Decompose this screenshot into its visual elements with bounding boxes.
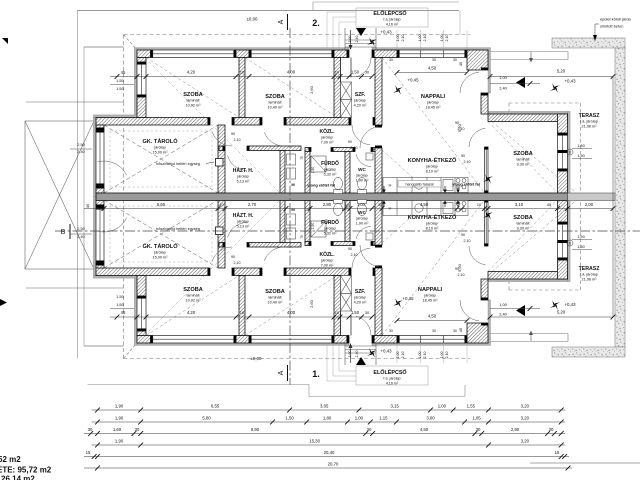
svg-text:10,40 m²: 10,40 m² <box>268 300 284 304</box>
svg-text:SZOBA: SZOBA <box>265 94 285 100</box>
door arc KONYHA to SZOBA <box>469 128 485 147</box>
insulation strip <box>93 197 96 276</box>
insulation strip <box>488 50 491 93</box>
svg-text:4,20 m²: 4,20 m² <box>354 300 368 304</box>
svg-text:KÖZL.: KÖZL. <box>320 128 336 135</box>
wall <box>96 125 104 130</box>
svg-text:A: A <box>278 19 285 24</box>
svg-text:±0,00: ±0,00 <box>251 356 263 361</box>
svg-text:90: 90 <box>348 247 352 251</box>
svg-text:1,80: 1,80 <box>323 416 332 421</box>
svg-text:SZOBA: SZOBA <box>265 289 285 295</box>
roof overhang dashed left vertical mid <box>123 102 125 288</box>
svg-text:5,13 m²: 5,13 m² <box>237 179 251 183</box>
roof eave line lower-left <box>26 287 124 289</box>
kitchen counter top unit <box>383 178 468 193</box>
window <box>485 147 489 193</box>
garage cross diagonal 2 <box>104 125 218 193</box>
svg-text:járólap: járólap <box>153 146 165 150</box>
svg-text:2,10: 2,10 <box>458 273 465 277</box>
svg-text:2,00: 2,00 <box>585 202 594 207</box>
sheet step line bottom <box>88 384 310 386</box>
svg-text:KONYHA-ÉTKEZŐ: KONYHA-ÉTKEZŐ <box>408 213 457 221</box>
garage cross diagonal 1 <box>104 125 218 193</box>
svg-text:B: B <box>61 229 66 236</box>
room diagonal NAPPALI/KONYHA <box>382 58 485 194</box>
dimension chain row 1 <box>92 409 566 411</box>
bathroom fixtures top unit <box>287 153 374 194</box>
svg-text:10: 10 <box>335 310 340 315</box>
entrance arrow top <box>350 30 352 49</box>
wall <box>284 268 351 276</box>
wall <box>96 268 210 276</box>
dim terrace 5,20 top <box>490 76 613 78</box>
wall <box>137 58 146 63</box>
svg-text:járólap: járólap <box>355 174 367 178</box>
svg-text:4,00: 4,00 <box>287 70 296 75</box>
svg-text:5,20: 5,20 <box>557 310 566 315</box>
terrace divider wall <box>568 193 616 201</box>
wall <box>334 58 341 118</box>
svg-text:2,80: 2,80 <box>323 202 332 207</box>
wall <box>334 50 349 58</box>
svg-text:30: 30 <box>389 58 393 62</box>
svg-text:1,55: 1,55 <box>467 404 476 409</box>
wall <box>216 159 224 167</box>
insulation strip <box>488 300 491 343</box>
svg-text:1,00: 1,00 <box>396 35 400 42</box>
svg-text:+0,45: +0,45 <box>402 296 414 301</box>
terrace diagonal dashed <box>492 122 581 197</box>
svg-text:30: 30 <box>476 427 481 432</box>
svg-text:simított beton: simított beton <box>600 24 623 29</box>
svg-text:laminált: laminált <box>268 296 282 300</box>
dim row middle <box>84 208 613 210</box>
svg-text:3,20: 3,20 <box>521 439 530 444</box>
svg-text:2,10: 2,10 <box>458 127 465 131</box>
svg-text:ELŐLÉPCSŐ: ELŐLÉPCSŐ <box>373 368 406 376</box>
sidewalk stipple band top <box>552 38 625 48</box>
svg-text:5,80: 5,80 <box>202 416 211 421</box>
wall <box>305 242 311 246</box>
wall <box>247 146 301 151</box>
svg-text:+0,43: +0,43 <box>564 79 576 84</box>
svg-text:+0,43: +0,43 <box>564 302 576 307</box>
svg-text:járólap: járólap <box>320 259 332 263</box>
dimension chain row 4 <box>92 444 566 446</box>
eave line above terrace <box>490 51 568 53</box>
svg-text:90: 90 <box>231 132 235 136</box>
svg-text:9,90: 9,90 <box>251 427 260 432</box>
svg-text:1,50: 1,50 <box>116 302 125 307</box>
svg-text:30: 30 <box>378 203 382 207</box>
svg-text:4,50: 4,50 <box>428 314 437 319</box>
insulation strip <box>93 276 137 279</box>
svg-text:1,50: 1,50 <box>577 154 584 158</box>
svg-text:laminált: laminált <box>268 101 282 105</box>
svg-text:SZOBA: SZOBA <box>513 151 533 157</box>
wall <box>558 114 568 133</box>
wall <box>372 336 397 344</box>
svg-text:1,50: 1,50 <box>351 310 360 315</box>
svg-text:2.: 2. <box>312 18 320 28</box>
svg-text:45: 45 <box>85 203 90 208</box>
wall <box>239 58 245 118</box>
svg-text:járólap: járólap <box>423 294 435 298</box>
wall <box>331 242 355 246</box>
svg-text:1,00: 1,00 <box>438 404 447 409</box>
windmill symbols <box>393 85 404 96</box>
svg-text:járólap: járólap <box>153 251 165 255</box>
sidewalk inner edge bottom-left <box>84 345 124 347</box>
window <box>96 207 104 263</box>
dimension chain row 6 <box>84 467 572 469</box>
svg-text:±0,00: ±0,00 <box>247 17 259 22</box>
roof hip diagonal 1 <box>25 121 94 269</box>
terrace dashed outline <box>509 102 581 104</box>
svg-text:2,60: 2,60 <box>309 85 314 94</box>
svg-text:20,70: 20,70 <box>328 462 339 467</box>
svg-text:2,10: 2,10 <box>351 146 358 150</box>
svg-text:8,10 m²: 8,10 m² <box>426 226 440 230</box>
svg-text:laminált: laminált <box>186 99 200 103</box>
svg-text:hőszivattyú beltéri egység: hőszivattyú beltéri egység <box>156 162 200 166</box>
svg-text:ETE: 95,72 m2: ETE: 95,72 m2 <box>0 466 52 475</box>
svg-text:1,00: 1,00 <box>440 352 444 359</box>
svg-text:45: 45 <box>121 310 126 315</box>
svg-text:5,20: 5,20 <box>557 69 566 74</box>
door arc SZOBA2 <box>264 132 284 146</box>
dim NAPPALI window <box>397 72 467 74</box>
svg-text:járólap: járólap <box>236 175 248 179</box>
wall <box>137 331 146 336</box>
wall <box>280 200 285 243</box>
window <box>397 336 467 344</box>
svg-text:18,45 m²: 18,45 m² <box>423 298 439 302</box>
svg-text:3,20: 3,20 <box>521 416 530 421</box>
svg-text:7,00 m²: 7,00 m² <box>321 263 335 267</box>
svg-text:+0,43: +0,43 <box>380 349 392 354</box>
svg-text:4,16 m²: 4,16 m² <box>386 382 399 386</box>
svg-text:4,50: 4,50 <box>428 66 437 71</box>
wall <box>334 336 349 344</box>
wall <box>96 186 104 193</box>
svg-text:10: 10 <box>240 310 245 315</box>
svg-text:3,00: 3,00 <box>426 416 435 421</box>
svg-text:1,00: 1,00 <box>355 416 364 421</box>
wall <box>345 200 350 242</box>
wall <box>219 243 225 248</box>
svg-text:hőszivattyú beltéri egység: hőszivattyú beltéri egység <box>156 227 200 231</box>
svg-text:3,05: 3,05 <box>320 404 329 409</box>
svg-text:20,40: 20,40 <box>324 450 335 455</box>
svg-text:2,40: 2,40 <box>355 36 359 43</box>
svg-text:5,13 m²: 5,13 m² <box>237 224 251 228</box>
svg-text:8: 8 <box>569 242 571 246</box>
svg-text:A: A <box>278 370 285 375</box>
svg-text:10: 10 <box>477 203 481 207</box>
svg-text:járólap: járólap <box>353 296 365 300</box>
svg-text:laminált: laminált <box>186 294 200 298</box>
wall <box>232 268 262 276</box>
roof overhang dashed top <box>124 34 471 36</box>
svg-text:30: 30 <box>432 329 436 333</box>
svg-text:H: H <box>389 183 392 188</box>
svg-text:SZF.: SZF. <box>355 289 366 295</box>
insulation strip <box>372 48 491 51</box>
roof ridge dashes <box>94 194 137 196</box>
svg-text:SZOBA: SZOBA <box>513 215 533 221</box>
svg-text:laminált: laminált <box>516 158 530 162</box>
elolepcso label box top <box>356 8 428 27</box>
wall <box>218 200 225 268</box>
sheet step line top <box>313 1 459 3</box>
sidewalk inner edge left <box>83 47 85 346</box>
svg-text:f.á. járólap: f.á. járólap <box>580 273 598 277</box>
svg-text:1,90: 1,90 <box>311 167 315 174</box>
svg-text:2,10: 2,10 <box>234 261 241 265</box>
wall <box>284 118 351 126</box>
insulation strip <box>93 115 137 118</box>
svg-text:járólap: járólap <box>323 227 335 231</box>
svg-text:30: 30 <box>453 58 457 62</box>
svg-text:ytong előtét fal: ytong előtét fal <box>452 182 480 187</box>
insulation strip <box>568 111 571 196</box>
dimension chain row 2 <box>92 421 566 423</box>
insulation strip <box>134 48 137 118</box>
svg-text:1,00: 1,00 <box>348 351 352 358</box>
svg-text:4,20: 4,20 <box>187 70 196 75</box>
svg-text:WC: WC <box>358 210 366 215</box>
svg-text:1,60: 1,60 <box>113 427 122 432</box>
window <box>249 336 334 344</box>
room diagonal SZOBA 9,30 <box>488 122 558 194</box>
svg-text:1,00: 1,00 <box>418 35 422 42</box>
svg-text:90: 90 <box>348 140 352 144</box>
svg-text:10,40 m²: 10,40 m² <box>268 105 284 109</box>
sidewalk inner edge top-left <box>84 46 124 48</box>
svg-text:1,00: 1,00 <box>348 36 352 43</box>
roof hip diagonal across left block <box>137 50 284 197</box>
svg-text:ytong előtét fal: ytong előtét fal <box>307 183 335 188</box>
wall <box>96 200 104 207</box>
svg-text:FÜRDŐ: FÜRDŐ <box>321 160 339 167</box>
svg-text:52 m2: 52 m2 <box>0 455 21 464</box>
svg-text:15,00 m²: 15,00 m² <box>153 255 169 259</box>
window <box>485 200 489 246</box>
svg-text:5,60: 5,60 <box>157 202 166 207</box>
svg-text:7,00 m²: 7,00 m² <box>321 140 335 144</box>
insulation strip <box>488 279 568 282</box>
svg-text:járólap: járólap <box>353 99 365 103</box>
window <box>137 296 146 331</box>
insulation strip <box>568 197 571 282</box>
svg-text:2,50: 2,50 <box>77 143 84 147</box>
wall <box>247 243 301 248</box>
svg-text:10: 10 <box>219 203 223 207</box>
svg-text:járólap: járólap <box>425 165 437 169</box>
svg-text:2,40: 2,40 <box>77 235 84 239</box>
entrance leader lines <box>326 12 328 50</box>
window <box>137 62 146 97</box>
wall <box>305 148 311 152</box>
sidewalk stipple band bottom <box>552 347 625 357</box>
svg-text:KONYHA-ÉTKEZŐ: KONYHA-ÉTKEZŐ <box>408 156 457 164</box>
svg-text:H: H <box>389 206 392 211</box>
terrace door triangle top <box>516 77 525 88</box>
svg-text:9,30 m²: 9,30 m² <box>517 162 531 166</box>
svg-text:SZF.: SZF. <box>355 92 366 98</box>
sidewalk stipple band right <box>615 48 625 347</box>
wall <box>467 50 488 70</box>
room diagonal SZOBA1 <box>146 58 239 118</box>
door arc SZF to KOZL <box>352 125 370 145</box>
svg-text:8,10 m²: 8,10 m² <box>426 169 440 173</box>
wall <box>488 272 568 280</box>
wall <box>558 260 568 279</box>
svg-text:30: 30 <box>453 329 457 333</box>
door arc WC <box>356 154 371 166</box>
sheet corner line bottom-right <box>530 462 640 464</box>
svg-text:10: 10 <box>345 203 349 207</box>
svg-text:45: 45 <box>121 70 126 75</box>
svg-text:4,16 m²: 4,16 m² <box>386 23 399 27</box>
svg-text:1,50: 1,50 <box>116 294 125 299</box>
wall <box>280 151 285 194</box>
svg-text:1,90 m²: 1,90 m² <box>356 221 370 225</box>
svg-text:1,50: 1,50 <box>285 416 294 421</box>
svg-text:1,00: 1,00 <box>418 352 422 359</box>
svg-text:3,10: 3,10 <box>515 202 524 207</box>
svg-text:2,10: 2,10 <box>445 352 449 359</box>
window <box>151 50 237 58</box>
svg-text:2,70: 2,70 <box>248 202 257 207</box>
svg-text:+0,43: +0,43 <box>380 30 392 35</box>
svg-text:2,60: 2,60 <box>309 299 314 308</box>
vertical dim line right <box>612 77 614 318</box>
svg-text:2,90: 2,90 <box>511 427 520 432</box>
roof eave line upper-left <box>26 101 124 103</box>
svg-text:NAPPALI: NAPPALI <box>418 287 443 293</box>
svg-text:GK. TÁROLÓ: GK. TÁROLÓ <box>142 242 178 250</box>
door jamb caps <box>347 50 350 58</box>
svg-text:GK. TÁROLÓ: GK. TÁROLÓ <box>142 137 178 145</box>
wall <box>137 336 151 344</box>
svg-text:10: 10 <box>240 70 245 75</box>
svg-text:1.: 1. <box>312 369 320 379</box>
svg-text:2,50: 2,50 <box>77 227 84 231</box>
insulation strip <box>137 48 349 51</box>
insulation strip <box>137 343 349 346</box>
wall <box>334 276 341 336</box>
svg-text:2,10: 2,10 <box>234 138 241 142</box>
svg-text:1,50: 1,50 <box>577 144 584 148</box>
svg-text:hanggátló falazat: hanggátló falazat <box>405 183 433 187</box>
svg-text:1,50: 1,50 <box>577 245 584 249</box>
svg-text:2,10: 2,10 <box>445 35 449 42</box>
window <box>558 222 568 260</box>
svg-text:30: 30 <box>432 58 436 62</box>
wall <box>218 125 225 193</box>
svg-text:5,32 m²: 5,32 m² <box>324 231 338 235</box>
svg-text:2,10: 2,10 <box>423 352 427 359</box>
svg-text:f.á. járólap: f.á. járólap <box>580 120 598 124</box>
svg-text:2,40: 2,40 <box>499 312 507 317</box>
svg-text:10,92 m²: 10,92 m² <box>186 103 202 107</box>
svg-text:2,10: 2,10 <box>423 35 427 42</box>
svg-text:75: 75 <box>300 235 304 239</box>
svg-text:1,90: 1,90 <box>115 416 124 421</box>
roof overhang corner diagonal <box>124 35 138 51</box>
svg-text:1,50: 1,50 <box>116 78 125 83</box>
svg-text:FÜRDŐ: FÜRDŐ <box>321 219 339 226</box>
wall <box>375 200 382 245</box>
wall <box>345 152 350 194</box>
wall <box>558 200 568 222</box>
svg-text:30: 30 <box>365 311 369 315</box>
section axis B-B horizontal dash-dot <box>55 230 640 232</box>
svg-text:75: 75 <box>300 156 304 160</box>
left edge marks <box>2 38 8 44</box>
svg-text:4,00: 4,00 <box>287 310 296 315</box>
svg-text:15,30: 15,30 <box>309 439 320 444</box>
svg-text:1,90: 1,90 <box>115 439 124 444</box>
svg-text:30: 30 <box>367 427 372 432</box>
wall <box>375 58 382 126</box>
svg-text:HÁZT. H.: HÁZT. H. <box>233 212 254 219</box>
svg-text:járólap: járólap <box>426 101 438 105</box>
svg-text:21,98 m²: 21,98 m² <box>582 124 598 128</box>
svg-text:1,00: 1,00 <box>396 352 400 359</box>
svg-text:laminált: laminált <box>516 222 530 226</box>
wall <box>481 93 488 114</box>
svg-text:SZOBA: SZOBA <box>183 92 203 98</box>
door arc NAPPALI terrace <box>460 72 479 93</box>
wall <box>137 276 146 297</box>
svg-text:HÁZT. H.: HÁZT. H. <box>233 167 254 174</box>
svg-text:90: 90 <box>231 255 235 259</box>
svg-text:1,15: 1,15 <box>379 416 388 421</box>
insulation strip <box>372 343 491 346</box>
wall <box>305 200 310 243</box>
svg-text:TERASZ: TERASZ <box>579 113 601 119</box>
svg-text:2,40: 2,40 <box>499 86 507 91</box>
wall <box>236 336 249 344</box>
wall <box>467 323 488 343</box>
wall <box>137 97 146 118</box>
window <box>96 130 104 186</box>
window <box>249 50 334 58</box>
dim row bottom windows (mirror) <box>110 316 372 318</box>
svg-text:90: 90 <box>455 267 459 271</box>
svg-text:2,10: 2,10 <box>464 239 471 243</box>
svg-text:3,20: 3,20 <box>521 404 530 409</box>
wall <box>305 151 310 194</box>
room diagonal SZOBA2 <box>245 58 337 118</box>
wall <box>96 263 104 268</box>
svg-text:1,50: 1,50 <box>351 70 360 75</box>
svg-text:5,32 m²: 5,32 m² <box>324 172 338 176</box>
wall <box>375 268 382 336</box>
insulation strip <box>134 276 137 346</box>
door arc HAZT.H <box>228 156 247 171</box>
svg-text:1,05: 1,05 <box>472 416 481 421</box>
plot boundary line top <box>77 10 459 12</box>
svg-text:járólap: járólap <box>323 168 335 172</box>
wall <box>373 268 375 276</box>
roof overhang dashed left vertical <box>123 35 125 103</box>
boundary vertical near nappali corner <box>459 11 461 35</box>
